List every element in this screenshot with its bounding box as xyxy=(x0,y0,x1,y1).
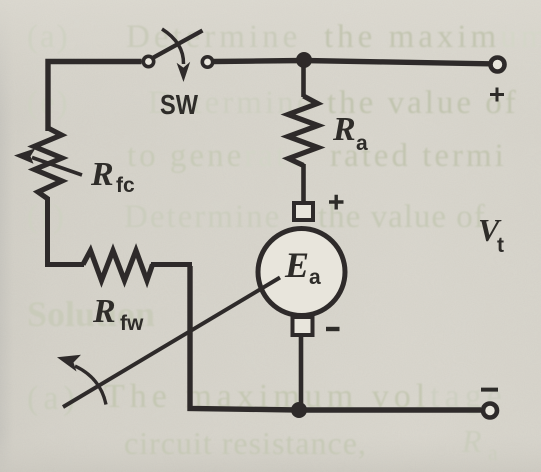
resistor Rfc zigzag (vertical, field control rheostat) xyxy=(34,128,62,199)
resistor Rfw zigzag (field winding) xyxy=(83,251,153,281)
bleed-through text row 5: (a) The maximum voltage xyxy=(27,378,507,417)
switch SW blade xyxy=(154,31,203,58)
wire: field return corner and bottom rail xyxy=(190,266,481,410)
svg-text:the value of: the value of xyxy=(318,199,486,235)
armature terminal block + (square) xyxy=(294,203,313,220)
wire: top-left corner (left branch feed) xyxy=(48,62,142,132)
wire: armature - terminal down to bottom rail xyxy=(299,336,304,410)
svg-text:to generate: to generate xyxy=(127,138,306,174)
svg-text:circuit resistance,: circuit resistance, xyxy=(124,425,367,461)
svg-text:the value of: the value of xyxy=(327,85,519,121)
wire: switch to right terminal (top rail) xyxy=(214,61,490,64)
svg-text:t: t xyxy=(497,234,504,257)
switch SW left terminal xyxy=(143,56,153,66)
wire: junction down to Ra xyxy=(301,61,306,97)
svg-text:a: a xyxy=(488,440,499,465)
svg-text:(a): (a) xyxy=(27,19,70,55)
terminal: - output (bottom right) xyxy=(483,404,497,418)
rheostat arrow through Rfc xyxy=(32,158,82,176)
svg-text:the maximum: the maximum xyxy=(324,19,541,55)
armature terminal block - (square) xyxy=(293,317,313,335)
resistor Ra zigzag xyxy=(288,96,318,166)
node: junction of armature branch and bottom rail xyxy=(291,402,307,418)
svg-text:Determine: Determine xyxy=(124,199,281,235)
wire: Rfw to field return corner xyxy=(151,262,192,267)
svg-text:R: R xyxy=(332,111,356,148)
armature EMF source Ea (circle) xyxy=(258,229,345,316)
polarity + at top-right terminal xyxy=(490,88,504,102)
wire: Rfc to bottom-left corner xyxy=(48,197,85,265)
bleed-through text row 4: (f) Determine the value of xyxy=(27,199,486,235)
terminal: + output (top right) xyxy=(491,58,505,72)
polarity + near Ra square xyxy=(329,195,344,210)
bleed-through text row 3: to generate rated terminal xyxy=(127,138,507,174)
bleed-through text row 2: (e) Determine the value of xyxy=(27,85,519,121)
switch SW right terminal xyxy=(202,57,212,67)
svg-text:fc: fc xyxy=(116,174,135,197)
svg-text:R: R xyxy=(92,293,116,330)
svg-text:(a): (a) xyxy=(27,380,80,417)
polarity - near lower square xyxy=(326,327,340,331)
switch SW closing arrow xyxy=(162,29,184,64)
polarity - at bottom-right terminal xyxy=(481,388,498,392)
svg-text:R: R xyxy=(90,156,114,193)
wire: Ra to armature + terminal xyxy=(301,164,306,201)
rotation adjustment arc arrow xyxy=(75,366,106,405)
svg-text:Determine: Determine xyxy=(126,19,301,55)
svg-text:SW: SW xyxy=(160,89,198,120)
brush/drive diagonal line through Ea xyxy=(63,278,280,408)
svg-text:fw: fw xyxy=(120,312,144,335)
bleed-through text row 6: circuit resistance, R xyxy=(124,423,499,465)
svg-text:E: E xyxy=(284,245,309,285)
svg-text:a: a xyxy=(309,266,321,289)
bleed-through text row 1: (a) Determine the maximum xyxy=(27,19,541,55)
svg-text:R: R xyxy=(461,423,483,459)
svg-text:a: a xyxy=(356,132,368,155)
node: junction of Ra branch and top rail xyxy=(296,52,312,68)
